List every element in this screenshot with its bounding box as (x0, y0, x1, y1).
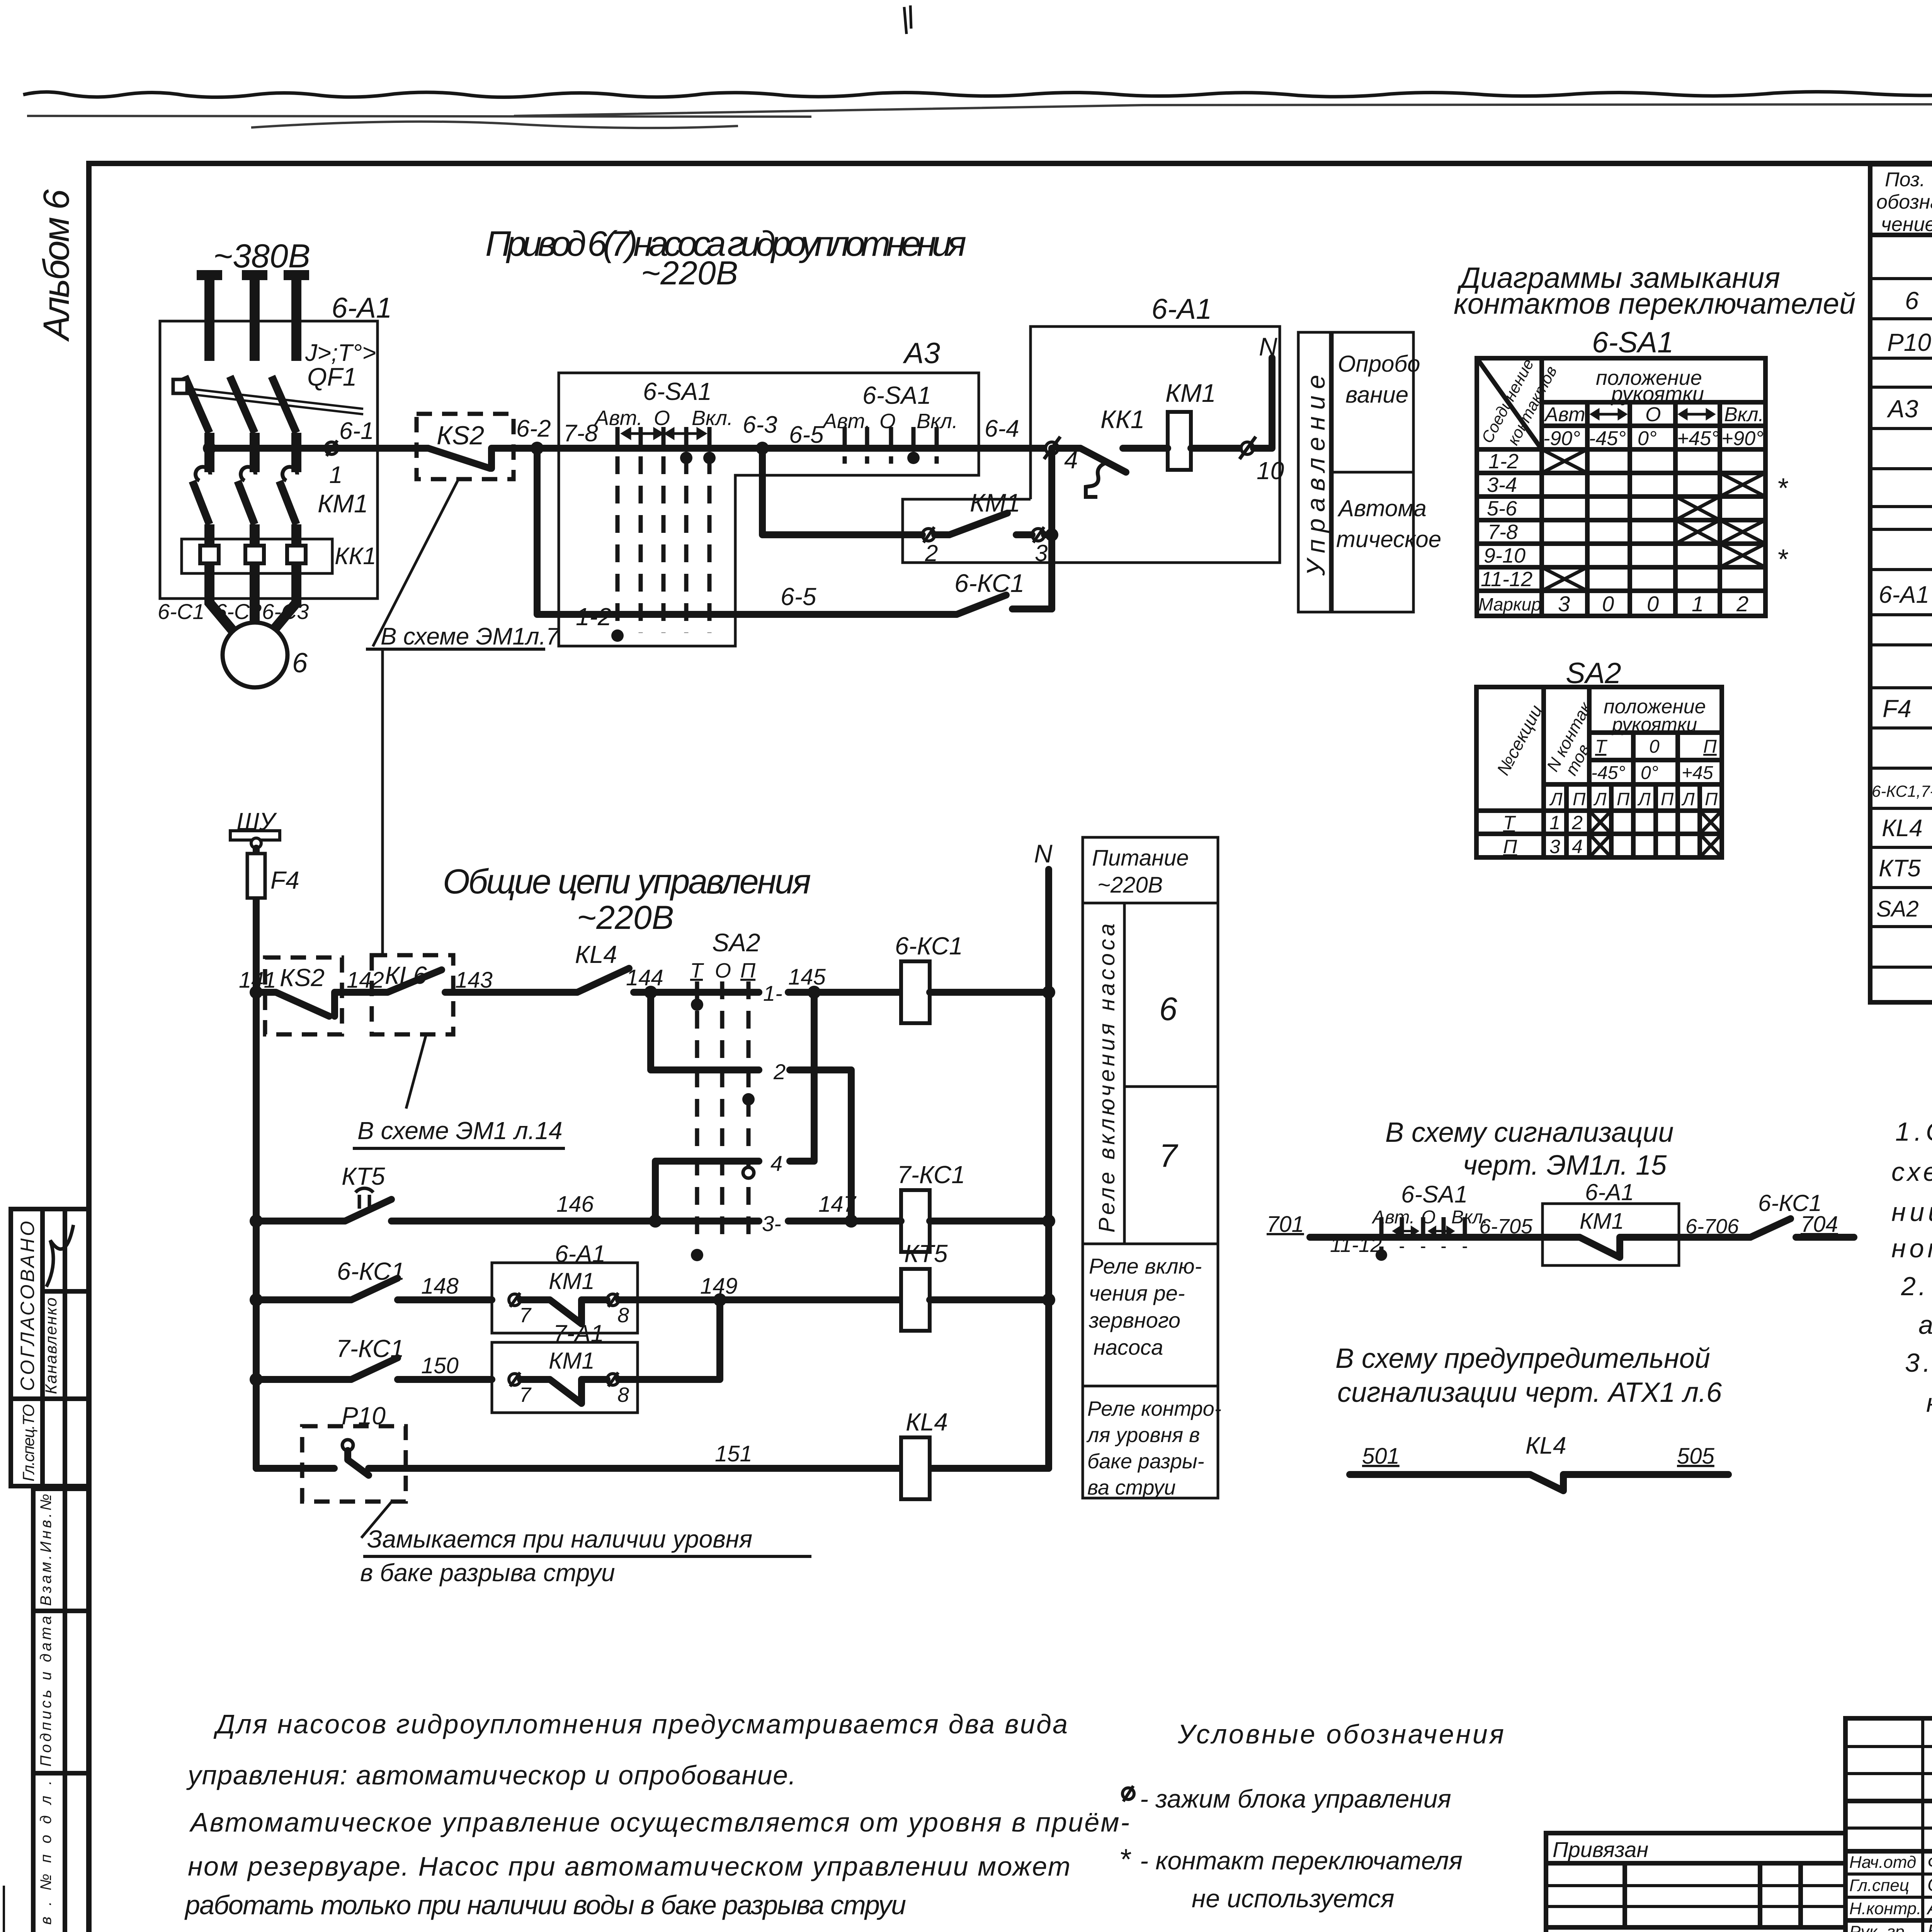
svg-text:6-5: 6-5 (789, 422, 824, 448)
svg-text:F4: F4 (270, 866, 299, 894)
relay contact KS2 (265, 957, 347, 1034)
fuse F4 (247, 848, 299, 992)
svg-text:П: П (1703, 736, 1717, 757)
wire 150 up to node 149 (619, 1300, 720, 1379)
svg-text:N: N (1259, 332, 1277, 361)
callout P10 note (360, 1502, 811, 1587)
thermal contact KK1 (1058, 405, 1145, 497)
block 6-A1 with KM1 NC contact (492, 1241, 638, 1333)
phase L3 supply stub (284, 275, 309, 361)
svg-text:148: 148 (421, 1274, 459, 1299)
contact closure crosses SA2 (1589, 811, 1722, 857)
svg-text:6-4: 6-4 (985, 415, 1019, 442)
svg-text:3. Уставку времени реле КТ: 3. Уставку времени реле КТ5 принять 3с и… (1905, 1348, 1932, 1378)
svg-text:6-КС1: 6-КС1 (954, 569, 1024, 597)
svg-text:А3: А3 (903, 337, 940, 370)
svg-text:КК1: КК1 (1100, 405, 1145, 434)
svg-text:Поз.: Поз. (1885, 168, 1925, 191)
relay coil KT5 (901, 1240, 1049, 1331)
svg-text:+45: +45 (1682, 763, 1713, 783)
svg-text:3-: 3- (762, 1211, 781, 1236)
phase L2 supply stub (242, 275, 267, 361)
contact 7-KC1 (row 150) (256, 1335, 492, 1379)
svg-text:-90°: -90° (1543, 427, 1580, 450)
svg-text:Реле вклю-: Реле вклю- (1089, 1254, 1202, 1278)
svg-text:Гл.спец.ТО: Гл.спец.ТО (19, 1404, 37, 1481)
svg-text:В схему сигнализации: В схему сигнализации (1385, 1117, 1673, 1148)
svg-text:1: 1 (1549, 812, 1560, 833)
relay coil KL4 (901, 1408, 948, 1499)
block A3 box outline (559, 373, 979, 646)
svg-text:КТ5: КТ5 (342, 1162, 385, 1190)
svg-text:чение: чение (1881, 213, 1932, 236)
node junction bus row 150 (250, 1373, 263, 1386)
contact 6-KC1 (auto circuit) (910, 569, 1052, 614)
relay coil 7-KC1 (851, 1161, 1049, 1252)
parts table header (1876, 168, 1932, 236)
svg-text:в баке разрыва струи: в баке разрыва струи (360, 1559, 615, 1587)
node junction 144 (644, 986, 657, 999)
svg-text:6-А1: 6-А1 (1151, 293, 1212, 325)
svg-text:1-: 1- (763, 981, 782, 1005)
wire 501-505 with KL4 contact (1350, 1432, 1728, 1491)
svg-text:10: 10 (1257, 457, 1284, 485)
svg-text:Авт.: Авт. (594, 406, 643, 430)
svg-text:Л: Л (1593, 789, 1607, 809)
relay contact KL4 (453, 940, 651, 992)
svg-text:Р10: Р10 (342, 1402, 386, 1430)
wire 1-2 row (537, 448, 910, 642)
svg-text:Л: Л (1681, 789, 1695, 809)
svg-text:+45°: +45° (1677, 427, 1719, 450)
node junction 6-2 dot (531, 442, 544, 455)
svg-text:2: 2 (773, 1060, 786, 1084)
parts rows text (1872, 249, 1932, 962)
node junction 147 (845, 1214, 858, 1228)
svg-text:6-SА1: 6-SА1 (1401, 1181, 1468, 1208)
title to warning scheme (1335, 1343, 1722, 1408)
left attachment inventory table (33, 1489, 89, 1932)
svg-text:9-10: 9-10 (1484, 544, 1526, 567)
svg-text:7-КС1: 7-КС1 (897, 1161, 965, 1189)
svg-text:4: 4 (1572, 836, 1583, 857)
auxiliary contact KM1 (self-hold 2-3) (922, 488, 1048, 566)
svg-text:Для насосов гидроуплотнения: Для насосов гидроуплотнения предусматрив… (213, 1709, 1068, 1739)
svg-text:насоса: насоса (1094, 1335, 1163, 1359)
svg-text:6-А1: 6-А1 (332, 292, 392, 324)
svg-text:0: 0 (1602, 592, 1614, 616)
svg-text:8: 8 (617, 1304, 629, 1327)
svg-text:Н.контр.: Н.контр. (1849, 1899, 1921, 1918)
svg-text:не используется: не используется (1192, 1884, 1395, 1913)
svg-text:Питание: Питание (1092, 845, 1189, 871)
svg-text:Т: Т (690, 959, 704, 982)
svg-text:147: 147 (818, 1192, 857, 1217)
node junction 141 on bus (250, 986, 263, 999)
svg-text:работать только при наличии: работать только при наличии воды в баке … (184, 1890, 906, 1920)
svg-text:КМ1: КМ1 (318, 489, 368, 518)
svg-text:В схеме ЭМ1л.7: В схеме ЭМ1л.7 (381, 623, 560, 650)
block 6-A1 control box outline (L-shape) (903, 327, 1280, 563)
svg-text:6: 6 (1159, 991, 1177, 1027)
svg-text:О: О (715, 959, 731, 982)
relay contact KL6 (347, 955, 453, 1034)
svg-text:6: 6 (1905, 287, 1919, 315)
phase L1 supply stub (197, 275, 222, 361)
wire through SA1 7-8 (570, 445, 762, 452)
svg-text:146: 146 (556, 1192, 594, 1217)
svg-text:1-2: 1-2 (1488, 450, 1519, 473)
svg-text:КL4: КL4 (1882, 815, 1923, 842)
svg-text:1: 1 (1692, 592, 1704, 616)
svg-text:КТ5: КТ5 (904, 1240, 948, 1267)
svg-text:0: 0 (1649, 736, 1660, 757)
svg-text:сигнализации черт. АТХ1 л.6: сигнализации черт. АТХ1 л.6 (1337, 1377, 1722, 1408)
node junction bus row 148 (250, 1293, 263, 1306)
node junction 149 (713, 1293, 726, 1306)
svg-text:Л: Л (1549, 789, 1563, 809)
svg-text:- контакт переключателя: - контакт переключателя (1140, 1846, 1463, 1875)
svg-text:501: 501 (1362, 1444, 1400, 1469)
svg-text:6-А1: 6-А1 (1585, 1179, 1634, 1205)
svg-text:6-2: 6-2 (516, 415, 551, 442)
wire section 1 through SA2 (651, 989, 814, 996)
svg-text:КL4: КL4 (1526, 1432, 1566, 1459)
svg-text:150: 150 (421, 1353, 459, 1378)
svg-text:6-С1: 6-С1 (158, 599, 204, 624)
wire 6-1 to KS2 (209, 445, 417, 452)
svg-text:ля уровня в: ля уровня в (1086, 1423, 1200, 1447)
svg-text:ва струи: ва струи (1087, 1476, 1176, 1499)
svg-text:Л: Л (1637, 789, 1651, 809)
svg-text:контактов переключателей: контактов переключателей (1454, 287, 1855, 320)
svg-text:0°: 0° (1638, 427, 1657, 450)
svg-text:7-8: 7-8 (563, 420, 598, 447)
svg-text:КL4: КL4 (575, 940, 617, 968)
svg-text:Замыкается при наличии уровня: Замыкается при наличии уровня (367, 1525, 752, 1553)
svg-text:6-705: 6-705 (1479, 1215, 1533, 1238)
labels 6-C1 6-C2 6-C3 (158, 599, 309, 624)
svg-text:Альбом 6: Альбом 6 (36, 189, 77, 342)
contactor KM1 main contacts (192, 467, 368, 539)
contact 6-KC1 (signal) (1750, 1190, 1854, 1237)
circuit breaker QF1 (173, 376, 363, 472)
svg-text:6-SА1: 6-SА1 (643, 378, 712, 405)
svg-text:Гл.спец: Гл.спец (1849, 1876, 1909, 1895)
switch 6-SA1 contact 11-12 (1371, 1181, 1543, 1261)
svg-text:В схеме ЭМ1 л.14: В схеме ЭМ1 л.14 (357, 1117, 563, 1145)
box Upravlenie (1298, 332, 1330, 612)
svg-text:Автоматическое управление ос: Автоматическое управление осуществляется… (189, 1807, 1129, 1837)
title to signalling scheme (1385, 1117, 1673, 1181)
svg-text:7-8: 7-8 (1488, 520, 1518, 544)
svg-text:4: 4 (770, 1151, 782, 1175)
svg-text:П: П (1573, 789, 1586, 809)
contact 6-KC1 (row 148) (256, 1257, 492, 1300)
svg-text:Фролов: Фролов (1927, 1852, 1932, 1873)
svg-text:2: 2 (1736, 592, 1748, 616)
SA2 stub 2 (651, 992, 851, 1221)
svg-text:КТ5: КТ5 (1879, 855, 1921, 882)
table SA2 (1476, 687, 1722, 857)
contact closure crosses 6-SA1 (1542, 449, 1765, 591)
time relay contact KT5 (256, 1162, 655, 1221)
svg-text:7-А1: 7-А1 (553, 1320, 604, 1347)
svg-text:2: 2 (925, 540, 938, 566)
wire 6-706 (1679, 1215, 1750, 1238)
svg-text:0°: 0° (1641, 763, 1658, 783)
wire row 141 start (256, 989, 270, 996)
block 6-A1 power cubicle box (160, 321, 378, 599)
svg-text:КМ1: КМ1 (549, 1268, 595, 1294)
node 6-3 (743, 412, 777, 455)
svg-text:6-1: 6-1 (339, 418, 374, 444)
node junction N row 147 (1042, 1214, 1055, 1228)
supply terminal ShU (230, 808, 280, 848)
svg-text:*: * (1777, 544, 1788, 575)
svg-text:ном резервуаре. Насос при: ном резервуаре. Насос при автоматическом… (188, 1851, 1070, 1881)
svg-text:КS2: КS2 (280, 964, 325, 992)
wire 149 (619, 1296, 901, 1303)
title: diagrams of switch contacts (1454, 262, 1855, 320)
svg-text:В схему предупредительной: В схему предупредительной (1335, 1343, 1710, 1374)
svg-text:П: П (740, 959, 756, 982)
callout to scheme EM1 l.14 (353, 1034, 565, 1148)
svg-text:SА2: SА2 (1876, 896, 1919, 922)
wire to N (1253, 358, 1272, 448)
svg-text:Т: Т (1595, 736, 1608, 757)
svg-text:~220В: ~220В (641, 255, 738, 292)
node junction bus row 146 (250, 1214, 263, 1228)
svg-text:3: 3 (1558, 592, 1570, 616)
svg-text:Привязан: Привязан (1553, 1837, 1648, 1862)
svg-text:Авт.: Авт. (1371, 1207, 1415, 1228)
svg-text:11-12: 11-12 (1330, 1233, 1382, 1257)
svg-text:6-5: 6-5 (781, 583, 816, 611)
svg-text:6-SА1: 6-SА1 (862, 381, 931, 409)
svg-text:Вкл.: Вкл. (692, 406, 733, 430)
svg-text:144: 144 (626, 965, 663, 990)
svg-text:схема аналогична. Цифра 6 в: схема аналогична. Цифра 6 в левой части … (1891, 1157, 1932, 1187)
svg-text:КМ1: КМ1 (970, 488, 1020, 517)
svg-text:11-12: 11-12 (1481, 568, 1532, 591)
svg-text:баке разры-: баке разры- (1087, 1450, 1204, 1473)
svg-text:- зажим блока управления: - зажим блока управления (1140, 1784, 1451, 1813)
svg-text:вание: вание (1345, 382, 1408, 408)
svg-text:505: 505 (1677, 1444, 1715, 1469)
svg-text:N: N (1034, 839, 1053, 868)
svg-text:7: 7 (1159, 1138, 1179, 1174)
left supply bus (253, 992, 260, 1468)
node junction 146/SA2 (649, 1214, 662, 1228)
paper scan edge top (23, 5, 1932, 128)
svg-text:6-КС1: 6-КС1 (895, 932, 963, 960)
svg-text:Автома: Автома (1337, 495, 1427, 521)
wire 6-3 to 6-4 (762, 445, 1048, 452)
svg-text:Взам.Инв.№: Взам.Инв.№ (37, 1494, 54, 1606)
svg-text:О: О (879, 410, 896, 433)
svg-text:6-КС1,7-КС1: 6-КС1,7-КС1 (1872, 782, 1932, 800)
svg-text:рукоятки: рукоятки (1611, 383, 1704, 406)
svg-text:Авт.: Авт. (1544, 403, 1590, 426)
svg-text:агрегат и общие цепи.: агрегат и общие цепи. (1918, 1310, 1932, 1340)
wire 701 (1267, 1212, 1382, 1257)
svg-text:701: 701 (1267, 1212, 1304, 1237)
callout line to scheme EM1 l.7 (366, 480, 560, 955)
svg-text:+90°: +90° (1721, 427, 1764, 450)
wire section 3 through SA2 (655, 1218, 851, 1225)
relay coil 6-KC1 (895, 932, 1049, 1023)
svg-text:КМ1: КМ1 (1165, 379, 1216, 407)
SA2 stub 4 (655, 992, 814, 1221)
svg-text:6-А1: 6-А1 (555, 1241, 605, 1267)
svg-text:3-4: 3-4 (1487, 473, 1517, 497)
svg-text:SА2: SА2 (712, 928, 760, 957)
terminal 1 (325, 440, 342, 488)
terminal 4 (1044, 437, 1078, 474)
svg-text:Реле контро-: Реле контро- (1087, 1397, 1221, 1420)
svg-text:КL4: КL4 (906, 1408, 948, 1436)
box Oprobovanie / Avtomaticheskoe (1332, 332, 1441, 612)
svg-text:151: 151 (715, 1441, 752, 1466)
svg-text:П: П (1617, 789, 1630, 809)
svg-text:~220В: ~220В (577, 899, 674, 936)
wire 6-3 down to aux contact (762, 448, 922, 535)
svg-text:6: 6 (292, 648, 308, 679)
svg-text:8: 8 (617, 1383, 629, 1406)
switch 6-SA1 group (contacts 9-10) (822, 381, 958, 464)
block 6-A1 with KM1 contact (signal) (1543, 1179, 1679, 1265)
svg-text:Т: Т (1503, 812, 1516, 833)
svg-text:2: 2 (1571, 812, 1583, 833)
svg-text:0: 0 (1647, 592, 1659, 616)
switch 6-SA1 group (contacts 7-8) (594, 378, 733, 633)
svg-text:7: 7 (519, 1304, 532, 1327)
thermal relay KK1 heaters (182, 539, 376, 573)
svg-text:~220В: ~220В (1097, 872, 1163, 898)
neutral bus N (1034, 839, 1055, 1468)
svg-text:-45°: -45° (1591, 763, 1626, 783)
svg-text:КS2: КS2 (437, 421, 484, 450)
table 6-SA1 (1477, 356, 1765, 616)
svg-text:1: 1 (329, 462, 342, 488)
svg-text:704: 704 (1801, 1212, 1838, 1237)
margin artifact mark (3, 1886, 5, 1932)
svg-text:Вкл.: Вкл. (1724, 403, 1764, 426)
svg-text:обозна-: обозна- (1876, 191, 1932, 213)
svg-text:КК1: КК1 (335, 543, 376, 570)
motor 6 (209, 573, 308, 687)
svg-text:СОГЛАСОВАНО: СОГЛАСОВАНО (17, 1221, 38, 1391)
svg-text:А3: А3 (1886, 395, 1918, 423)
svg-text:П: П (1503, 836, 1517, 857)
svg-text:*: * (1777, 473, 1788, 504)
svg-text:Нач.отд: Нач.отд (1849, 1853, 1916, 1872)
coil KM1 (1128, 379, 1241, 470)
svg-text:1-2: 1-2 (576, 603, 612, 631)
svg-text:QF1: QF1 (307, 362, 357, 391)
svg-text:6-SА1: 6-SА1 (1592, 326, 1673, 359)
svg-text:Барчан: Барчан (1927, 1921, 1932, 1932)
svg-text:О: О (1645, 403, 1661, 426)
svg-text:Общие цепи управления: Общие цепи управления (443, 862, 811, 901)
svg-text:*: * (1119, 1843, 1131, 1876)
svg-text:5-6: 5-6 (1487, 497, 1517, 520)
node 6-1 wire tap (203, 418, 374, 455)
svg-text:Р10: Р10 (1887, 328, 1931, 356)
svg-text:7: 7 (519, 1383, 532, 1406)
svg-text:О: О (654, 406, 670, 430)
wire KS2 to A3 (515, 445, 570, 452)
svg-text:Опробо: Опробо (1338, 351, 1420, 377)
svg-text:рукоятки: рукоятки (1611, 714, 1697, 735)
svg-text:F4: F4 (1883, 695, 1912, 723)
svg-text:6-3: 6-3 (743, 412, 777, 438)
svg-text:тическое: тическое (1336, 526, 1441, 552)
node junction at terminal 3 (1045, 528, 1058, 541)
block 7-A1 with KM1 NC contact (492, 1320, 638, 1413)
svg-text:Арансон: Арансон (1926, 1898, 1932, 1918)
svg-text:П: П (1661, 789, 1674, 809)
svg-text:П: П (1705, 789, 1718, 809)
svg-text:3: 3 (1035, 540, 1048, 566)
svg-text:черт. ЭМ1л. 15: черт. ЭМ1л. 15 (1463, 1150, 1667, 1181)
svg-text:Маркир: Маркир (1478, 594, 1541, 614)
svg-text:чения ре-: чения ре- (1089, 1281, 1185, 1305)
relay contact KS2 (power interlock) (417, 414, 515, 479)
svg-text:Рук. гр.: Рук. гр. (1849, 1922, 1909, 1932)
svg-text:6-А1: 6-А1 (1879, 582, 1929, 608)
svg-text:КМ1: КМ1 (1580, 1209, 1624, 1234)
svg-text:КМ1: КМ1 (549, 1348, 595, 1374)
wire 145 to coil (814, 989, 901, 996)
svg-text:-45°: -45° (1589, 427, 1626, 450)
float switch P10 (256, 1402, 1049, 1502)
svg-text:нить при наладке и эксплуа: нить при наладке и эксплуатации (1926, 1388, 1932, 1418)
svg-text:Обозная: Обозная (1927, 1875, 1932, 1895)
svg-text:145: 145 (788, 964, 826, 990)
switch SA2 section dashed lines (690, 928, 760, 1261)
node junction 145 (808, 986, 821, 999)
node junction N row 149 (1042, 1293, 1055, 1306)
svg-text:~380В: ~380В (213, 238, 310, 275)
svg-text:3: 3 (1549, 836, 1560, 857)
svg-text:зервного: зервного (1088, 1308, 1180, 1332)
left attachment staff table (11, 1209, 89, 1486)
wire aux contact to node 3 vertical (1044, 448, 1052, 609)
section title (443, 862, 811, 936)
terminal 10 (1240, 437, 1284, 485)
